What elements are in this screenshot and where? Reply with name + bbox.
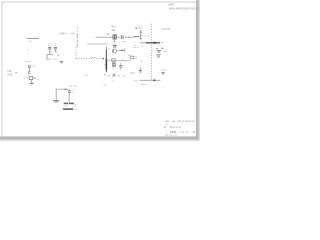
svg-text:GN: GN xyxy=(48,59,52,61)
polarity plus mark xyxy=(135,27,137,29)
svg-text:fx: fx xyxy=(27,49,29,51)
page shadow right xyxy=(196,0,198,140)
svg-text:MAIN AMP BOARD REV 1C: MAIN AMP BOARD REV 1C xyxy=(169,7,200,10)
crystal X1 xyxy=(112,63,116,66)
resistor R4 body xyxy=(131,56,134,59)
J2 bottom stub xyxy=(104,74,106,76)
power flag bar PWR2 xyxy=(63,108,73,110)
stray tick xyxy=(104,84,106,86)
ground GND4 (bowl) xyxy=(30,83,34,84)
title block: dashes xyxy=(172,120,175,122)
junction dot output xyxy=(153,79,155,81)
resistor R3 on rail xyxy=(112,59,115,62)
svg-text:xxx xx: xxx xx xyxy=(90,57,97,59)
svg-text:xxx xx: xxx xx xyxy=(133,47,140,49)
capacitor C1 xyxy=(48,47,51,54)
wire: R2 to ground xyxy=(31,80,33,83)
bus feed bar (thick) xyxy=(146,42,159,44)
module boundary (dashed, left) xyxy=(75,47,77,59)
regulator U2 label row xyxy=(69,86,77,88)
svg-text:0R: 0R xyxy=(118,75,121,77)
svg-text:~INP x: ~INP x xyxy=(59,31,68,35)
capacitor C10 xyxy=(139,68,142,73)
module boundary (dashed, bottom) xyxy=(76,58,103,60)
ground GND5 xyxy=(156,55,161,58)
wire: top rail into module xyxy=(87,43,108,45)
svg-text:xxx xx: xxx xx xyxy=(141,84,148,86)
capacitor C15 xyxy=(68,89,74,96)
wire stub right of C2 xyxy=(57,54,60,56)
net stub wire left xyxy=(27,37,39,39)
svg-text:xxx xx: xxx xx xyxy=(25,61,32,63)
resistor R2 xyxy=(29,77,33,80)
node tick T1 xyxy=(128,36,130,38)
svg-text:x xx xx: x xx xx xyxy=(179,132,189,134)
capacitor C12 (vertical) xyxy=(138,27,143,39)
svg-text:OUT: OUT xyxy=(134,80,139,82)
wire: R12 to bus (dotted) xyxy=(142,35,150,37)
page border frame xyxy=(2,2,196,137)
arrow mark on wire xyxy=(121,49,123,51)
inductor L1 (bracket) xyxy=(29,72,31,74)
wire: output xyxy=(140,79,161,81)
capacitor C6 xyxy=(121,35,123,39)
transistor Q3 xyxy=(113,35,116,42)
wire tick right of R2 xyxy=(33,77,35,79)
svg-text:C): C) xyxy=(72,92,75,94)
svg-text:10(: 10( xyxy=(132,73,135,75)
capacitor C5 xyxy=(113,46,117,48)
bus feed end tick xyxy=(159,42,161,44)
earth ground E1 xyxy=(53,89,59,103)
PWR1 tick xyxy=(74,104,76,106)
svg-text:—IN: —IN xyxy=(105,34,110,36)
svg-text:CN1: CN1 xyxy=(7,71,12,73)
svg-text:C12: C12 xyxy=(138,27,143,29)
tick right xyxy=(131,72,133,74)
svg-text:(T R7 C8: (T R7 C8 xyxy=(118,61,127,63)
junction blob on feed xyxy=(154,42,156,44)
capacitor C2 xyxy=(54,47,57,52)
wire: drop to module boundary (dashed) xyxy=(76,27,78,35)
wire: ground rail to C15 xyxy=(56,88,64,90)
capacitor C14 xyxy=(161,72,164,75)
svg-text:VCC 9V: VCC 9V xyxy=(162,29,171,31)
capacitor C13 (vertical) xyxy=(119,63,122,70)
capacitor C11 (electrolytic) xyxy=(156,47,163,52)
wire: Q3 to C6 xyxy=(117,36,121,38)
dark tab on module boundary xyxy=(103,58,105,60)
svg-text:xx*: xx* xyxy=(29,41,32,43)
capacitor C3 xyxy=(28,66,31,71)
power flag bar PWR1 xyxy=(64,103,69,105)
wire: input net to Q3 xyxy=(96,36,113,38)
capacitor C7 xyxy=(113,74,115,77)
connector bar J2 dark segment xyxy=(105,59,107,70)
transistor Q1 xyxy=(112,49,116,53)
wire: mid rail xyxy=(107,59,131,61)
page shadow bottom xyxy=(0,137,199,140)
svg-text:+C14: +C14 xyxy=(160,70,166,72)
dashed net bus (vertical) xyxy=(151,24,153,81)
resistor R12 (body on wire) xyxy=(134,36,140,38)
ground GND3 xyxy=(59,61,63,63)
svg-text:Nnnn Nnnnnn: Nnnn Nnnnnn xyxy=(178,120,196,123)
connector bar J2 (thick vertical) xyxy=(105,47,107,51)
svg-text:LINE: LINE xyxy=(7,74,13,76)
wire: C15 to PWR flag xyxy=(68,96,70,102)
wire: C1 bottom rail xyxy=(47,55,53,61)
wire tick near label xyxy=(71,32,73,34)
svg-text:Pxxx xx xx: Pxxx xx xx xyxy=(170,126,182,129)
connector tick xyxy=(15,71,17,73)
svg-text:Ea: Ea xyxy=(166,119,170,123)
bus feed lead xyxy=(140,42,146,44)
pin tick P2 xyxy=(124,49,126,52)
svg-text:VDD: VDD xyxy=(168,3,175,7)
wire dotted to R2 xyxy=(24,77,29,79)
wire: Q1 collector right xyxy=(117,49,125,51)
svg-text:xxx xxxx xxx: xxx xxxx xxx xyxy=(165,135,178,137)
wire: C6 to node tick xyxy=(124,36,134,38)
